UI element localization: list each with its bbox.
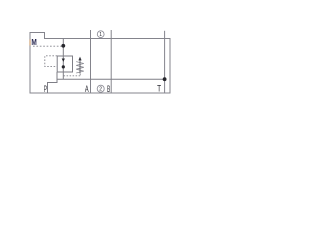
plate outline bbox=[30, 33, 170, 94]
arrow flow direction bbox=[62, 59, 65, 62]
svg-text:A: A bbox=[85, 84, 89, 94]
node position 1 callout bbox=[97, 31, 104, 38]
svg-text:B: B bbox=[107, 84, 110, 94]
node T junction dot bbox=[163, 77, 167, 81]
port passage A bbox=[90, 30, 92, 93]
wire gauge line M (dashed) bbox=[33, 45, 62, 47]
wire drain to T bbox=[57, 78, 165, 80]
valve V1 body bbox=[57, 56, 72, 72]
svg-text:2: 2 bbox=[99, 87, 102, 93]
port marker M (orange tick) bbox=[29, 40, 31, 46]
svg-text:T: T bbox=[157, 83, 161, 93]
node pilot junction dot bbox=[62, 65, 65, 68]
wire P passage top bbox=[62, 39, 64, 57]
spring adjustable bbox=[76, 62, 84, 73]
port passage B bbox=[110, 30, 112, 93]
wire valve outlet bbox=[62, 72, 64, 79]
port passage T bbox=[164, 31, 166, 93]
arrow spring adjustment bbox=[79, 60, 81, 74]
svg-text:P: P bbox=[44, 84, 47, 94]
wire flow path in valve bbox=[62, 56, 64, 72]
wire spring drain (dashed) bbox=[79, 74, 81, 76]
svg-text:M: M bbox=[31, 38, 37, 47]
node M junction dot bbox=[61, 44, 65, 48]
wire pilot line (dashed) bbox=[45, 56, 57, 67]
wire P riser bbox=[48, 72, 58, 93]
node position 2 callout bbox=[97, 85, 104, 92]
svg-text:1: 1 bbox=[99, 32, 102, 38]
